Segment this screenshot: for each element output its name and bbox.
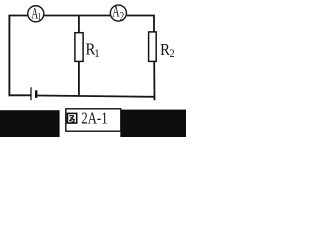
wire: top, segment A1 to A2 (44, 15, 110, 17)
svg-text:1: 1 (38, 11, 42, 23)
wire: R2 bottom lead down past bottom wire (153, 61, 155, 100)
ammeter A1 (28, 4, 44, 23)
wire: bottom, left segment to battery (9, 94, 31, 96)
label R1 (85, 41, 99, 60)
battery: long thin plate (positive) (30, 87, 32, 100)
resistor R2 (149, 32, 157, 62)
caption box (66, 109, 121, 131)
svg-text:1: 1 (94, 47, 100, 60)
svg-text:2: 2 (170, 47, 175, 60)
svg-text:2A-1: 2A-1 (81, 110, 107, 128)
caption bar right (black) (120, 110, 186, 137)
caption hanzi: 图 (drawn) (67, 113, 76, 123)
svg-text:A: A (112, 2, 120, 20)
svg-text:2: 2 (120, 11, 124, 24)
wire: R1 top lead from top wire (78, 16, 80, 33)
ammeter A2 (110, 2, 126, 24)
resistor R1 (75, 33, 83, 62)
label R2 (160, 41, 174, 60)
wire: R1 bottom lead to bottom wire (78, 61, 80, 96)
wire: left vertical side (8, 15, 10, 97)
wire: bottom, battery to right end (37, 96, 154, 97)
caption bar left (black) (0, 110, 60, 137)
wire: top, segment A2 to top-right corner (127, 16, 154, 32)
battery: short thick plate (negative) (35, 90, 37, 98)
wire: top, left segment to A1 (9, 15, 28, 17)
